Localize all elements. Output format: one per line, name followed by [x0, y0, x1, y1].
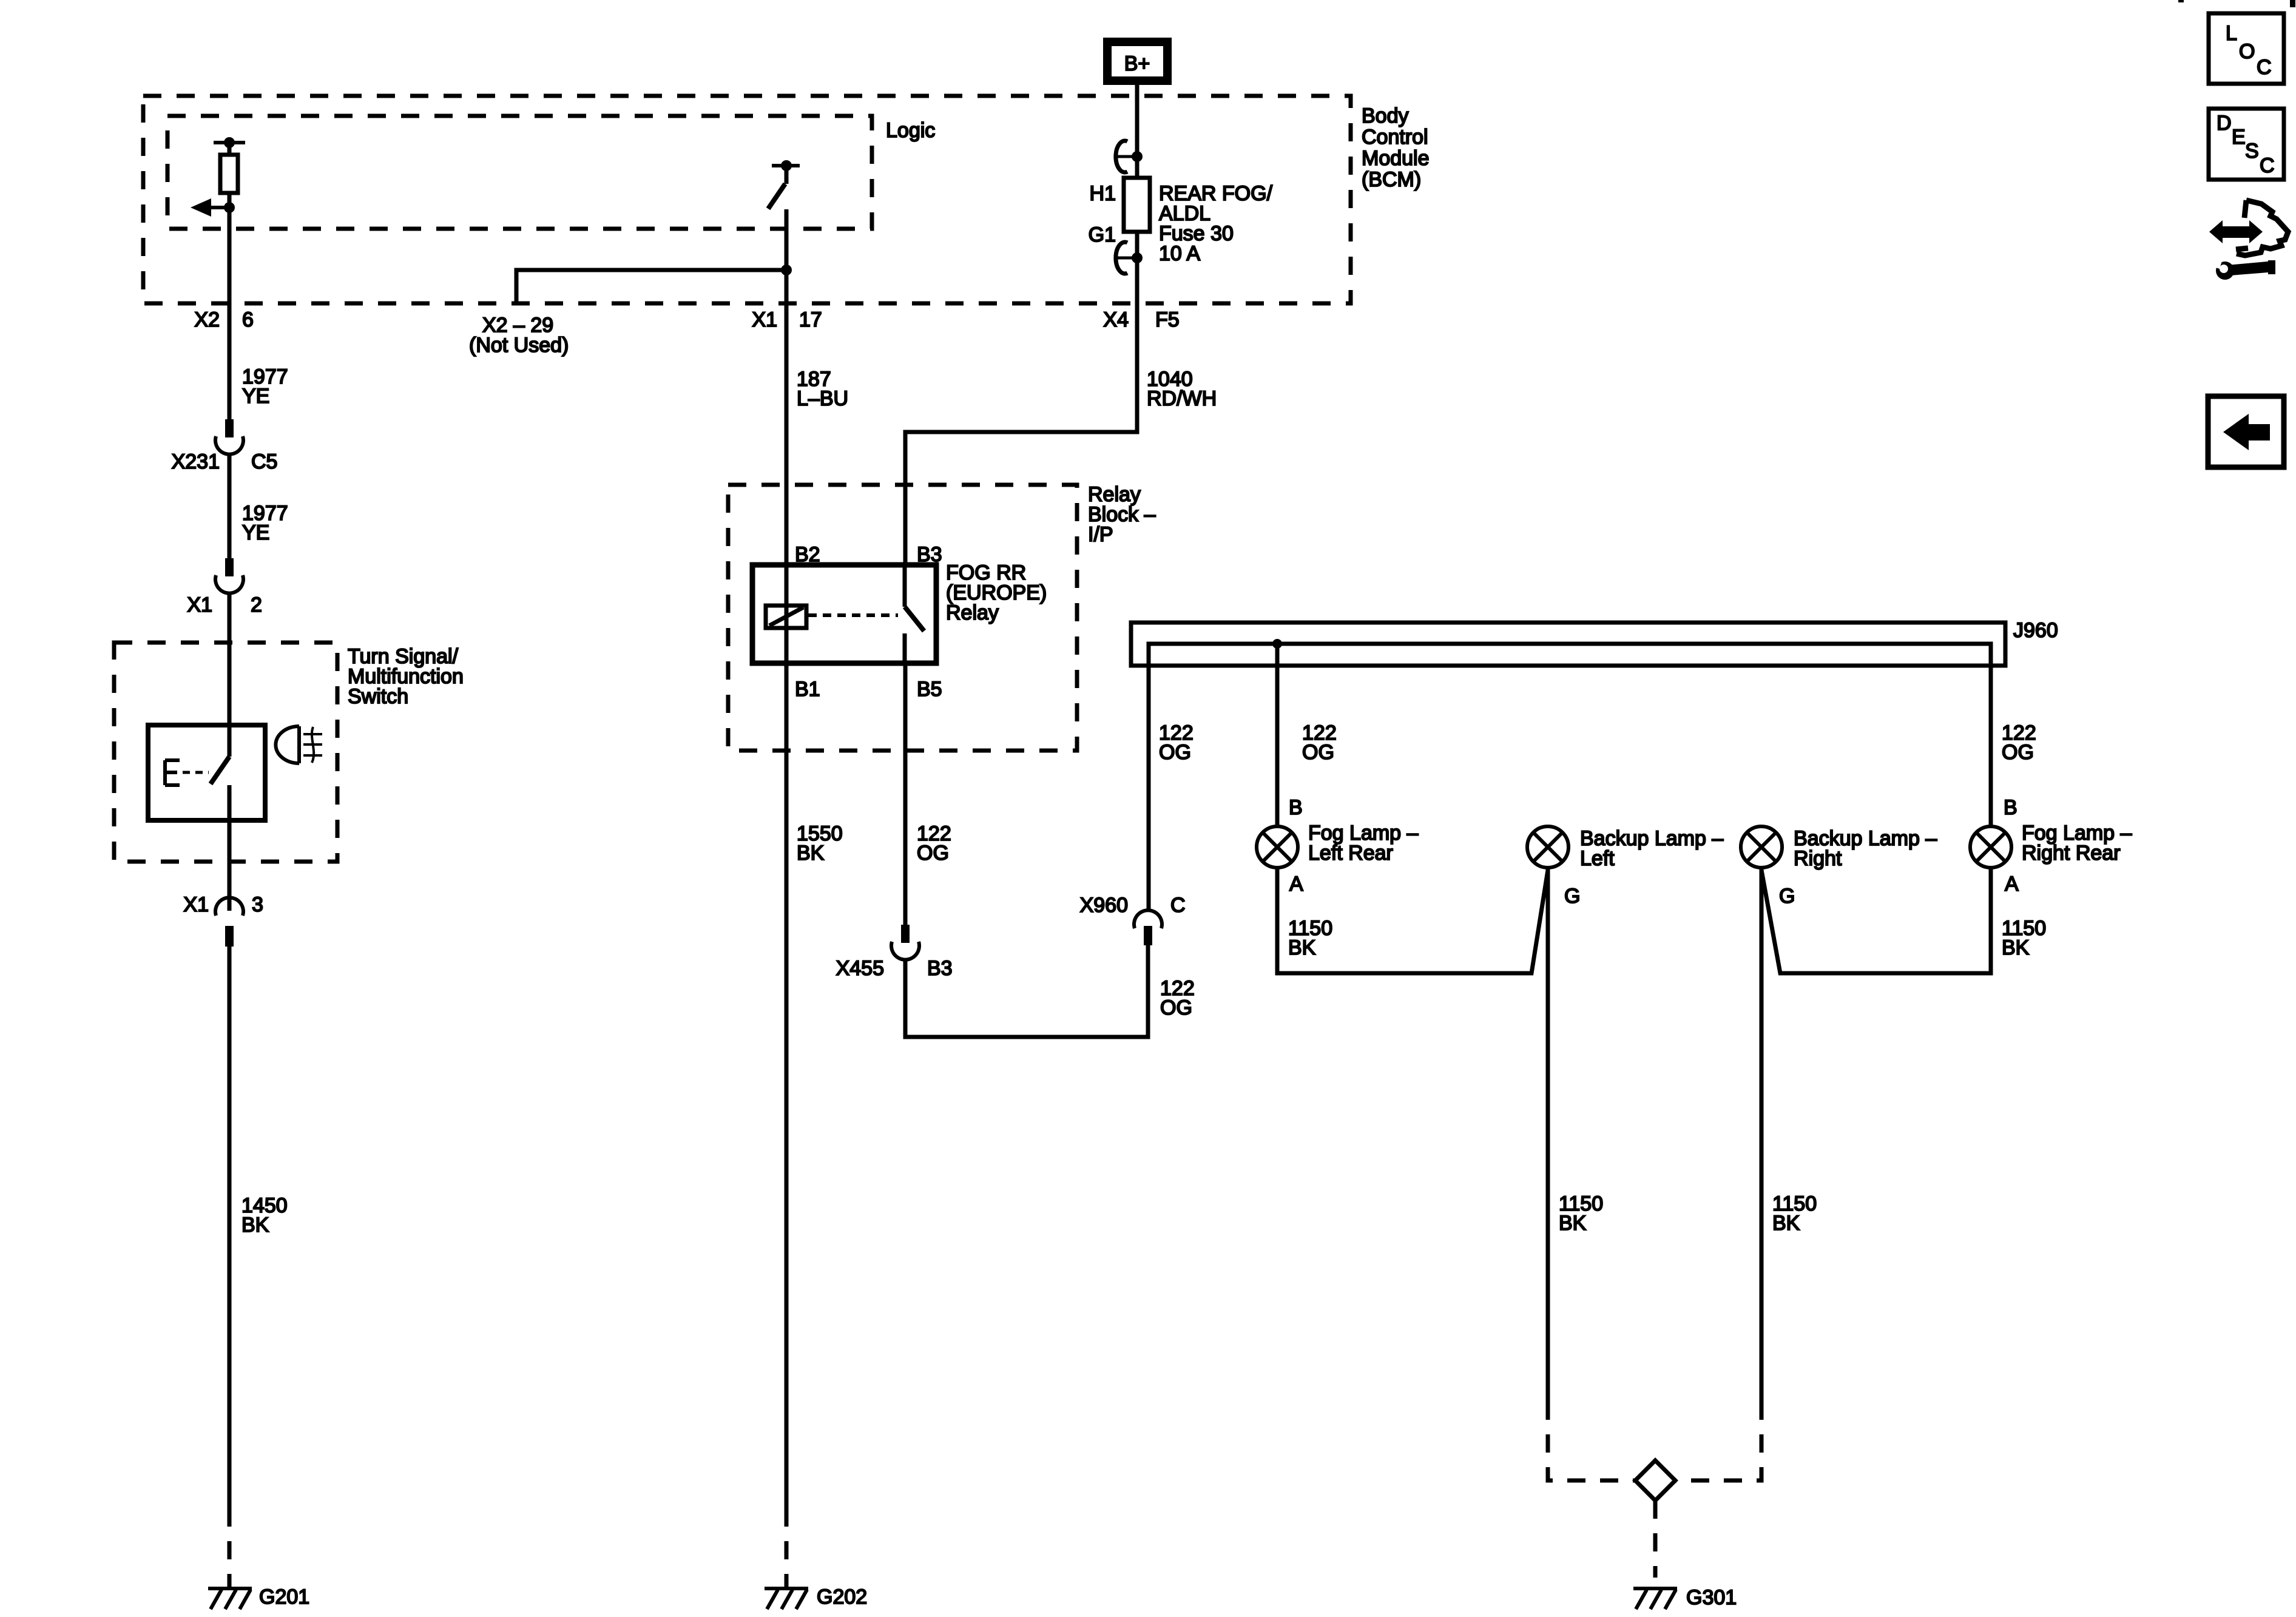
svg-text:X960: X960	[1080, 894, 1128, 917]
svg-text:C5: C5	[251, 450, 277, 473]
wrench icon	[2216, 260, 2275, 280]
junction node to X2-29 jumper	[781, 265, 792, 275]
wire 122 OG from relay B5 down to X455	[903, 663, 908, 925]
fuse clip H1	[1116, 141, 1127, 172]
svg-text:Body: Body	[1362, 104, 1409, 127]
svg-text:C: C	[1170, 894, 1186, 917]
svg-text:BK: BK	[2002, 936, 2030, 959]
svg-text:O: O	[2239, 40, 2255, 63]
lamp Fog Lamp - Left Rear	[1257, 826, 1298, 868]
arrow to logic (left)	[206, 206, 229, 209]
switch linkage dashes	[183, 771, 209, 774]
svg-text:G301: G301	[1686, 1586, 1737, 1609]
lamp Backup Lamp - Left	[1527, 826, 1568, 868]
svg-text:(BCM): (BCM)	[1362, 168, 1421, 191]
svg-text:Logic: Logic	[886, 119, 935, 142]
svg-text:3: 3	[252, 893, 263, 916]
connector X1 3 (socket and pin, flipped)	[215, 897, 243, 916]
logic switch blade	[785, 166, 789, 184]
Body Control Module (BCM) dashed box	[143, 96, 1351, 303]
wire 187 L-BU / 1550 BK main vertical	[785, 209, 789, 1508]
splice pack J960 outer bar	[1131, 623, 2005, 666]
svg-text:G: G	[1564, 885, 1580, 908]
svg-text:B: B	[2004, 796, 2017, 819]
connector X960 C (socket and pin, flipped)	[1134, 910, 1162, 928]
fog lamp indicator icon	[275, 726, 299, 763]
svg-text:B1: B1	[795, 678, 820, 701]
svg-text:X1: X1	[183, 893, 209, 916]
double arrow of hand icon	[2209, 220, 2263, 243]
svg-text:2: 2	[251, 593, 262, 616]
svg-text:BK: BK	[241, 1214, 269, 1237]
svg-text:BK: BK	[1288, 936, 1316, 959]
dashed wire to G201	[228, 1508, 232, 1587]
svg-text:YE: YE	[242, 385, 269, 408]
svg-text:A: A	[2005, 873, 2019, 896]
svg-text:G: G	[1779, 885, 1795, 908]
svg-text:D: D	[2217, 112, 2232, 135]
svg-text:Right Rear: Right Rear	[2022, 842, 2121, 865]
svg-text:S: S	[2245, 140, 2259, 163]
ground G202	[765, 1588, 808, 1609]
svg-text:X1: X1	[752, 308, 777, 331]
Relay Block I/P dashed box	[728, 485, 1077, 751]
resistor (BCM logic input) tick and top node	[214, 141, 245, 144]
wire 1977 YE from X231 to X1-2	[228, 455, 232, 558]
Logic dashed box	[167, 116, 872, 229]
wire 1150 BK backup lamp right down	[1760, 868, 1764, 1402]
LOC legend box	[2209, 13, 2284, 84]
svg-text:10 A: 10 A	[1159, 242, 1200, 265]
wire 1977 YE from X2-6 down to X231	[228, 208, 232, 419]
switch contact E glyph	[165, 760, 180, 785]
ground G201	[208, 1588, 252, 1609]
svg-text:X2: X2	[194, 308, 220, 331]
svg-text:B: B	[1289, 796, 1303, 819]
wire 122 OG bus to fog lamp left rear	[1275, 644, 1280, 826]
svg-text:RD/WH: RD/WH	[1147, 387, 1217, 410]
svg-text:OG: OG	[1159, 741, 1191, 764]
wire 1150 BK backup lamp left down	[1546, 868, 1550, 1402]
switch blade (turn signal switch)	[211, 757, 229, 784]
svg-text:Switch: Switch	[348, 685, 408, 708]
svg-text:E: E	[2232, 126, 2246, 149]
DESC legend box	[2209, 109, 2284, 180]
turn signal switch inner box	[148, 725, 265, 820]
wire 1450 BK down to ground	[228, 947, 232, 1508]
relay switch blade	[903, 565, 907, 607]
dashed wire to G202	[785, 1508, 789, 1587]
svg-text:G201: G201	[259, 1585, 309, 1609]
svg-text:X231: X231	[172, 450, 220, 473]
splice S301 diamond	[1635, 1460, 1675, 1501]
svg-text:BK: BK	[797, 842, 825, 865]
svg-text:OG: OG	[917, 842, 949, 865]
svg-text:Relay: Relay	[946, 601, 999, 624]
wire into turn signal switch	[228, 594, 232, 757]
svg-text:Left: Left	[1580, 847, 1615, 870]
wire out of switch down to X1-3	[228, 785, 232, 911]
svg-text:J960: J960	[2013, 619, 2058, 642]
wire B+ to fuse	[1135, 85, 1140, 178]
svg-text:C: C	[2257, 56, 2272, 79]
splice pack J960 inner bus wire	[1149, 644, 1991, 910]
page edge speck right	[2290, 0, 2295, 7]
svg-text:B3: B3	[927, 957, 953, 980]
connector X1 2 (pin and socket)	[225, 558, 234, 576]
Turn Signal/Multifunction Switch dashed box	[114, 643, 337, 862]
svg-text:I/P: I/P	[1088, 523, 1113, 546]
svg-text:6: 6	[242, 308, 254, 331]
svg-text:B2: B2	[795, 543, 820, 566]
hand icon with double arrow	[2236, 200, 2288, 255]
svg-text:B3: B3	[917, 543, 942, 566]
svg-text:OG: OG	[1302, 741, 1334, 764]
ground G301	[1633, 1588, 1677, 1609]
wire 122 OG from X455 over to X960	[905, 945, 1148, 1037]
svg-text:BK: BK	[1559, 1212, 1587, 1235]
svg-text:Right: Right	[1794, 847, 1842, 870]
svg-text:(Not Used): (Not Used)	[469, 334, 569, 357]
relay linkage (dashed)	[808, 613, 898, 617]
svg-text:BK: BK	[1772, 1212, 1800, 1235]
connector X455 B3 (pin and socket)	[901, 925, 910, 943]
resistor body	[228, 143, 232, 155]
lamp Fog Lamp - Right Rear	[1970, 826, 2011, 868]
fuse REAR FOG/ALDL Fuse 30 10 A	[1124, 178, 1150, 232]
svg-text:L–BU: L–BU	[797, 387, 848, 410]
svg-text:Control: Control	[1362, 126, 1428, 149]
relay coil	[766, 606, 806, 628]
connector X231 C5 (pin and socket)	[225, 419, 234, 437]
svg-text:A: A	[1289, 873, 1303, 896]
logic switch tick and node	[772, 164, 800, 167]
svg-text:YE: YE	[242, 521, 269, 544]
svg-text:L: L	[2226, 22, 2237, 45]
lamp Backup Lamp - Right	[1741, 826, 1782, 868]
fuse clip G1	[1116, 242, 1127, 274]
svg-text:F5: F5	[1155, 308, 1180, 331]
svg-text:OG: OG	[2002, 741, 2034, 764]
svg-text:G1: G1	[1089, 223, 1116, 246]
svg-text:Module: Module	[1362, 147, 1430, 170]
dashed wire splice to G301	[1653, 1501, 1658, 1578]
relay FOG RR (EUROPE) outline box	[752, 565, 936, 663]
wire 1150 BK backup lamp right to fog lamp right rear	[1761, 868, 1991, 973]
page edge speck left	[2178, 0, 2184, 2]
wire 1150 BK fog lamp left rear to backup lamp left	[1277, 868, 1548, 973]
svg-text:Left Rear: Left Rear	[1308, 842, 1393, 865]
B+ battery feed box	[1103, 38, 1172, 85]
back arrow box	[2208, 396, 2284, 467]
svg-text:OG: OG	[1160, 996, 1192, 1019]
svg-text:H1: H1	[1090, 182, 1116, 205]
node on bus for fog lamp left rear	[1272, 639, 1282, 649]
svg-text:17: 17	[799, 308, 822, 331]
svg-text:X1: X1	[187, 593, 212, 616]
wire 1040 RD/WH from fuse down and over to relay B3	[905, 232, 1137, 565]
jumper wire to X2-29 (Not Used)	[516, 270, 786, 303]
svg-text:G202: G202	[817, 1585, 867, 1609]
node under resistor	[224, 202, 235, 213]
svg-text:C: C	[2260, 154, 2275, 177]
svg-text:X4: X4	[1103, 308, 1129, 331]
svg-text:B+: B+	[1124, 52, 1150, 75]
svg-text:X455: X455	[836, 957, 884, 980]
svg-text:B5: B5	[917, 678, 942, 701]
